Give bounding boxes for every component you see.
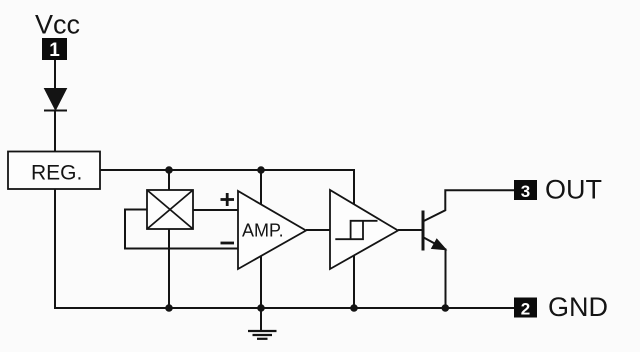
svg-text:Vcc: Vcc <box>35 10 80 40</box>
svg-text:2: 2 <box>521 300 530 319</box>
svg-text:OUT: OUT <box>545 175 602 205</box>
svg-text:3: 3 <box>521 182 530 201</box>
svg-text:AMP.: AMP. <box>242 221 284 241</box>
svg-text:GND: GND <box>548 292 608 322</box>
svg-text:REG.: REG. <box>31 162 82 185</box>
svg-text:1: 1 <box>49 40 60 61</box>
